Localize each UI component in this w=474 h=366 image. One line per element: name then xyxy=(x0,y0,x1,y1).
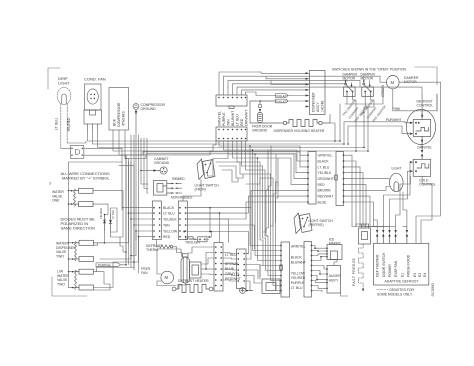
note denotes text xyxy=(377,288,415,296)
diode D3 xyxy=(109,210,115,230)
svg-text:BLACK: BLACK xyxy=(163,206,175,210)
wire label grn/yel C xyxy=(291,244,306,248)
connector E column 2 xyxy=(178,201,187,240)
svg-text:DISPENSER: DISPENSER xyxy=(312,92,316,112)
cond fan terminal box xyxy=(84,110,102,130)
svg-text:S103992: S103992 xyxy=(431,283,435,297)
svg-text:TWO: TWO xyxy=(56,254,64,258)
svg-text:SAME DIRECTION: SAME DIRECTION xyxy=(61,226,96,231)
svg-text:YEL/RED: YEL/RED xyxy=(99,208,103,219)
wire label pink xyxy=(392,107,401,111)
wire label red xyxy=(240,118,244,126)
light switch frzr label xyxy=(195,184,220,192)
wire label yellow E xyxy=(163,229,178,233)
svg-text:LT. BLU: LT. BLU xyxy=(163,211,175,215)
svg-text:TAN: TAN xyxy=(226,119,230,126)
svg-text:ASS'Y: ASS'Y xyxy=(329,278,339,282)
damper switch S1 xyxy=(344,80,356,97)
svg-text:ORG/WHT: ORG/WHT xyxy=(318,177,334,181)
wire label lt blu E xyxy=(163,211,175,215)
wire label grn/yel below defrost control xyxy=(417,146,432,150)
bottom-left corner bracket xyxy=(52,277,87,296)
connector strip A xyxy=(307,152,316,205)
relay K1 xyxy=(71,146,84,159)
defrost control label xyxy=(417,100,434,108)
wire label orn/wht xyxy=(244,110,248,126)
drain trough label xyxy=(185,237,200,245)
wire label red/wht A xyxy=(318,195,334,199)
svg-text:ONE: ONE xyxy=(52,199,60,203)
wire label blu/wht xyxy=(231,111,235,126)
svg-text:LT. BLU: LT. BLU xyxy=(111,210,115,219)
fast freeze label xyxy=(352,258,356,286)
plug evap fan xyxy=(394,230,396,243)
wire pur/wht run xyxy=(344,122,410,144)
wire strip F to strip G xyxy=(223,253,237,282)
wire label blue F xyxy=(225,267,235,271)
wire violet runs xyxy=(287,95,306,97)
wire label yel/blk A xyxy=(318,171,332,175)
svg-text:4TM148S: 4TM148S xyxy=(122,111,126,126)
wire drip light leads xyxy=(61,105,86,149)
defrost therm label xyxy=(146,244,162,252)
wire label tan xyxy=(226,119,230,126)
wire label black E xyxy=(163,206,175,210)
damper switch S2 label xyxy=(361,73,376,81)
svg-text:VIOLET: VIOLET xyxy=(276,94,287,98)
svg-text:ORN/WHT: ORN/WHT xyxy=(244,110,248,126)
wire label org/wht A xyxy=(318,177,334,181)
wire light switch frzr leads xyxy=(183,159,228,202)
wire relay feeds turning down xyxy=(84,148,122,210)
wire label lt blu xyxy=(235,114,239,126)
svg-text:M: M xyxy=(391,80,395,85)
svg-text:E4: E4 xyxy=(423,273,427,277)
wire bundle left bus taps to connector E xyxy=(122,208,152,238)
svg-text:TAN: TAN xyxy=(163,223,170,227)
note switches position xyxy=(332,68,406,72)
svg-text:GROUND: GROUND xyxy=(154,161,170,165)
wire staircase down to strip C upper rows xyxy=(246,146,281,291)
wire maze center extra runs xyxy=(121,123,348,296)
node yel/red label xyxy=(67,117,71,132)
connector strip D xyxy=(304,242,312,298)
svg-text:PUR/WHT: PUR/WHT xyxy=(386,118,402,122)
fast freeze arrow xyxy=(362,289,364,292)
svg-text:VIOLET: VIOLET xyxy=(276,99,287,103)
svg-text:GRN/YEL: GRN/YEL xyxy=(417,146,432,150)
wire label blu/wht C xyxy=(291,261,306,265)
svg-text:YELLOW: YELLOW xyxy=(291,272,306,276)
ice maker label xyxy=(329,237,342,245)
svg-text:BROWN: BROWN xyxy=(318,189,332,193)
svg-text:DEFROST HEATER: DEFROST HEATER xyxy=(178,279,209,283)
top-left corner bracket xyxy=(48,68,60,89)
wire J2 staircase to strip A rows xyxy=(249,145,308,184)
node lt.blu label xyxy=(55,118,59,130)
wire label purple flag xyxy=(96,263,121,267)
wire band junction dots xyxy=(334,140,369,152)
svg-text:COMPRESSOR: COMPRESSOR xyxy=(117,102,121,127)
wire label purple C xyxy=(291,281,305,285)
svg-text:RED: RED xyxy=(318,183,326,187)
svg-text:MARKED BY "+" SYMBOL: MARKED BY "+" SYMBOL xyxy=(62,176,110,181)
switch S1 terminal notes diagonal xyxy=(342,98,370,122)
cond fan label xyxy=(84,77,106,82)
svg-text:BLACK: BLACK xyxy=(291,256,303,260)
diode D2 xyxy=(99,208,106,230)
drip light bulb xyxy=(57,87,71,104)
evaporator ground xyxy=(240,288,253,294)
svg-text:CONTROL: CONTROL xyxy=(417,104,434,108)
water dispenser valve two L2 xyxy=(72,240,94,261)
svg-text:SOME MODELS ONLY.: SOME MODELS ONLY. xyxy=(377,292,413,296)
svg-text:RED: RED xyxy=(240,118,244,126)
water valve one label xyxy=(52,190,64,203)
connector strip G xyxy=(237,249,247,289)
ice maker xyxy=(326,245,342,260)
wire defrost heater to strip F xyxy=(188,247,214,289)
wire band compressor area to right xyxy=(96,140,340,142)
compressor ground xyxy=(133,103,165,130)
dispenser assembly A1 xyxy=(306,71,326,115)
wire label violet flag 1 xyxy=(276,94,289,98)
plug door switch xyxy=(382,230,384,243)
wire damper motor leads xyxy=(342,76,437,111)
svg-text:GRN/YEL: GRN/YEL xyxy=(217,111,221,126)
wire label brown F xyxy=(225,262,239,266)
svg-text:DEF THERMO: DEF THERMO xyxy=(376,254,380,277)
connector strip B xyxy=(335,152,345,206)
wire label purple xyxy=(222,112,226,126)
svg-text:BLACK: BLACK xyxy=(318,159,330,163)
cond fan motor xyxy=(85,84,102,110)
svg-text:DISPENSER HOUSING HEATER: DISPENSER HOUSING HEATER xyxy=(274,129,325,133)
wire box H to strip C xyxy=(260,266,281,281)
auger assembly xyxy=(326,266,341,294)
svg-text:PURPLE: PURPLE xyxy=(291,281,305,285)
wire defrost therm leads xyxy=(157,240,182,257)
cabinet ground label xyxy=(154,157,170,165)
note 3 xyxy=(49,182,51,186)
wire J1 to dispenser assy rows xyxy=(261,72,306,73)
wire dispenser valve two outputs xyxy=(94,243,135,290)
defrost heater label xyxy=(178,279,209,283)
wire label red/wht F xyxy=(225,277,241,281)
svg-text:E3: E3 xyxy=(413,273,417,277)
svg-text:141748: 141748 xyxy=(321,101,325,112)
wire maze verticals below light switch frzr xyxy=(187,207,228,243)
fast freeze relay box xyxy=(359,224,371,244)
svg-text:ADAPTIVE DEFROST: ADAPTIVE DEFROST xyxy=(385,279,419,283)
svg-text:3: 3 xyxy=(49,182,51,186)
svg-text:RIBBED: RIBBED xyxy=(172,177,185,181)
wire label grn/yel A xyxy=(318,154,333,158)
defrost control D1 xyxy=(406,95,435,145)
wire bundle left verticals down to bottom bus xyxy=(94,155,139,272)
svg-text:FRESH FOOD: FRESH FOOD xyxy=(407,254,411,277)
svg-text:(FRZR): (FRZR) xyxy=(195,188,206,192)
dispenser housing heater R1 xyxy=(250,101,330,133)
plug fresh food xyxy=(406,230,408,243)
svg-text:POWER: POWER xyxy=(388,264,392,277)
damper motor label right xyxy=(404,76,419,84)
damper switch S2 xyxy=(362,80,374,97)
note all wire connections xyxy=(61,171,111,181)
svg-text:M: M xyxy=(165,275,169,280)
water valve one L1 xyxy=(71,188,93,206)
note part number xyxy=(431,283,435,297)
note diodes polarized xyxy=(61,217,96,231)
wire damper switch top pins xyxy=(345,80,371,87)
wire label grn/yel F xyxy=(225,272,240,276)
svg-text:TWO: TWO xyxy=(57,282,65,286)
cold control label xyxy=(419,179,436,187)
wire label yel/blk E xyxy=(163,217,177,221)
plug def thermo xyxy=(376,230,378,243)
note denotes dashed xyxy=(377,289,388,291)
frzr fan motor M2 xyxy=(161,271,174,284)
wire label red E xyxy=(163,235,171,239)
connector J2 lower xyxy=(216,127,247,141)
svg-text:LT. BLU: LT. BLU xyxy=(291,286,303,290)
adaptive defrost board xyxy=(374,243,429,285)
wire label red A xyxy=(318,183,326,187)
svg-text:PINK: PINK xyxy=(392,107,401,111)
light switch refrig xyxy=(294,213,312,234)
light switch frzr xyxy=(197,159,215,180)
svg-text:(REFRIG): (REFRIG) xyxy=(309,223,324,227)
compressor U1 xyxy=(109,88,129,131)
wire label pur/wht xyxy=(386,118,402,122)
svg-text:SWITCHES SHOWN IN THE "OPEN" P: SWITCHES SHOWN IN THE "OPEN" POSITION xyxy=(332,68,406,72)
wire water valve one outputs xyxy=(93,191,127,253)
damper switch S1 label xyxy=(343,73,358,81)
refrig light bulb xyxy=(390,173,404,191)
wire label grn/yel xyxy=(217,111,221,126)
light switch refrig label xyxy=(309,219,334,227)
wire strip D to ice maker xyxy=(312,246,328,293)
note non-ribbed xyxy=(171,196,193,200)
svg-text:YEL/BLK: YEL/BLK xyxy=(318,171,332,175)
wire switch risers from band xyxy=(340,76,374,151)
power plug P2 xyxy=(153,181,181,196)
wire plug risers xyxy=(352,220,407,230)
note ribbed xyxy=(172,177,185,181)
svg-text:RED: RED xyxy=(163,235,171,239)
defrost heater assembly xyxy=(181,254,201,283)
wire label black A xyxy=(318,159,330,163)
wire compressor ground lead down xyxy=(135,130,137,240)
defrost thermostat xyxy=(160,245,173,249)
svg-text:MOTOR: MOTOR xyxy=(361,77,374,81)
frzr door ground xyxy=(252,100,273,132)
svg-text:YEL/BLK: YEL/BLK xyxy=(163,217,177,221)
svg-text:LT. BLU: LT. BLU xyxy=(318,165,330,169)
svg-text:CONTROL: CONTROL xyxy=(419,183,436,187)
svg-text:E1: E1 xyxy=(400,273,404,277)
svg-text:PURPLE: PURPLE xyxy=(222,112,226,126)
wire label green vertical xyxy=(381,84,385,97)
connector J1 top xyxy=(216,95,247,109)
wire connector risers to top fan-out xyxy=(219,72,422,170)
l/w water valve two L3 xyxy=(72,269,94,290)
plug power xyxy=(388,230,390,243)
refrig light label xyxy=(392,167,402,171)
drain trough heater xyxy=(183,231,211,242)
svg-text:RED/WHT: RED/WHT xyxy=(318,195,334,199)
svg-text:GROUND: GROUND xyxy=(141,107,157,111)
svg-text:MOTOR: MOTOR xyxy=(343,77,356,81)
fast freeze option dashed xyxy=(359,244,364,288)
connector strip C xyxy=(280,242,290,297)
switch S2 terminal notes diagonal xyxy=(360,98,388,122)
svg-text:YEL/RED: YEL/RED xyxy=(291,276,306,280)
wire label black C xyxy=(291,256,303,260)
svg-text:YEL/RED: YEL/RED xyxy=(67,117,71,132)
wire frzr fan leads xyxy=(157,249,185,289)
svg-text:LT. BLU: LT. BLU xyxy=(55,118,59,130)
svg-text:GROUND: GROUND xyxy=(252,129,268,133)
wire cabinet ground lead xyxy=(140,170,148,172)
terminal box H xyxy=(262,279,280,294)
wire label lt blu A xyxy=(318,165,330,169)
svg-text:PURPLE: PURPLE xyxy=(98,263,110,267)
wire compressor pins down xyxy=(113,130,116,151)
water dispenser valve two label xyxy=(56,242,76,259)
svg-text:BCK: BCK xyxy=(113,118,117,126)
wire label violet flag 2 xyxy=(276,99,289,103)
wire strip G fan-out right xyxy=(246,208,262,291)
top-right corner bracket xyxy=(415,67,437,85)
svg-text:COND. FAN: COND. FAN xyxy=(84,77,106,82)
svg-text:FAST FREEZE: FAST FREEZE xyxy=(352,258,356,286)
wire label brown A xyxy=(318,189,332,193)
wire valve common bus xyxy=(68,162,122,288)
svg-text:ASS'Y: ASS'Y xyxy=(316,102,320,112)
wire label blue A xyxy=(318,200,328,204)
svg-text:LIGHT: LIGHT xyxy=(392,167,402,171)
wire label lt blu F xyxy=(225,253,237,257)
wire label lt blu C xyxy=(291,286,303,290)
wire connector E col2 fan-out right xyxy=(183,190,308,253)
svg-text:GRN/YEL: GRN/YEL xyxy=(291,244,306,248)
wire label yellow C xyxy=(291,272,306,276)
svg-text:GRN/YEL: GRN/YEL xyxy=(318,154,333,158)
wire label yel/red C xyxy=(291,276,306,280)
l/w water valve two label xyxy=(57,270,69,287)
damper motor M1 xyxy=(387,76,400,89)
svg-text:FAN: FAN xyxy=(141,271,148,275)
svg-text:LT. BLU: LT. BLU xyxy=(235,114,239,126)
svg-text:EVAP FAN: EVAP FAN xyxy=(394,260,398,277)
svg-text:E2: E2 xyxy=(418,273,422,277)
wire label tan E xyxy=(163,223,170,227)
cold control S3 xyxy=(410,159,431,176)
svg-text:BLU/WHT: BLU/WHT xyxy=(231,111,235,126)
defrost heater element R2 xyxy=(172,285,213,293)
wire strip B fan-out right xyxy=(344,82,441,243)
cabinet ground symbol xyxy=(148,167,167,174)
frzr fan label xyxy=(141,267,151,275)
svg-text:LIGHT: LIGHT xyxy=(58,80,70,85)
svg-text:BLUE: BLUE xyxy=(318,200,328,204)
wire fan pins to right band xyxy=(88,130,97,141)
plug P1 grn/yel xyxy=(421,145,423,160)
svg-text:YELLOW: YELLOW xyxy=(163,229,178,233)
svg-text:DOOR SWITCH: DOOR SWITCH xyxy=(382,252,386,277)
connector strip F xyxy=(214,243,223,292)
drip light label xyxy=(58,76,70,85)
connector E column 1 xyxy=(152,201,161,240)
wire J2 risers down xyxy=(219,141,250,146)
